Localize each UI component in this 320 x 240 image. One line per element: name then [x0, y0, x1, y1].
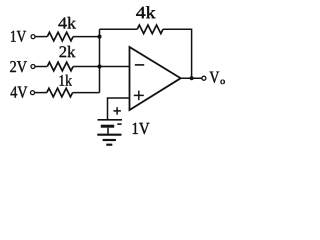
label 4k row1	[58, 17, 76, 29]
battery 1V bottom plate	[101, 125, 114, 128]
wire	[73, 92, 100, 94]
resistor 4k (feedback)	[137, 25, 163, 34]
output terminal Vo	[202, 76, 206, 80]
op-amp U1 triangle	[130, 47, 181, 110]
label 2V input	[10, 61, 27, 72]
wire: feedback right and drop	[163, 29, 192, 78]
resistor 4k (input 1)	[47, 32, 73, 41]
wire to inverting input	[73, 66, 129, 68]
label 1V battery	[133, 123, 150, 134]
wire: battery to ground	[107, 128, 109, 135]
label 1V input	[11, 31, 26, 42]
battery 1V top plate	[98, 119, 123, 121]
op-amp plus sign	[134, 94, 144, 96]
node dot row2	[97, 64, 101, 68]
op-amp minus sign	[135, 64, 144, 66]
wire: output	[181, 77, 202, 79]
wire	[35, 66, 47, 68]
battery minus label	[117, 123, 121, 125]
resistor 2k (input 2)	[47, 62, 73, 71]
label 1k	[60, 75, 73, 86]
input terminal 1V	[31, 35, 35, 39]
wire	[35, 36, 47, 38]
ground	[97, 134, 121, 136]
label 4V input	[11, 87, 28, 98]
input terminal 2V	[31, 65, 35, 69]
label Vo	[209, 72, 219, 83]
label 2k	[59, 46, 75, 57]
resistor 1k (input 3)	[47, 88, 73, 97]
wire: noninverting input to battery	[108, 98, 130, 119]
wire: feedback top left	[100, 28, 138, 30]
wire	[73, 36, 99, 38]
wire	[35, 92, 47, 94]
wire: summing bus vertical	[99, 29, 101, 92]
battery plus label	[113, 110, 121, 112]
input terminal 4V	[31, 91, 35, 95]
node dot output	[190, 76, 194, 80]
label 4k feedback	[136, 6, 155, 18]
node dot row1	[97, 35, 101, 39]
